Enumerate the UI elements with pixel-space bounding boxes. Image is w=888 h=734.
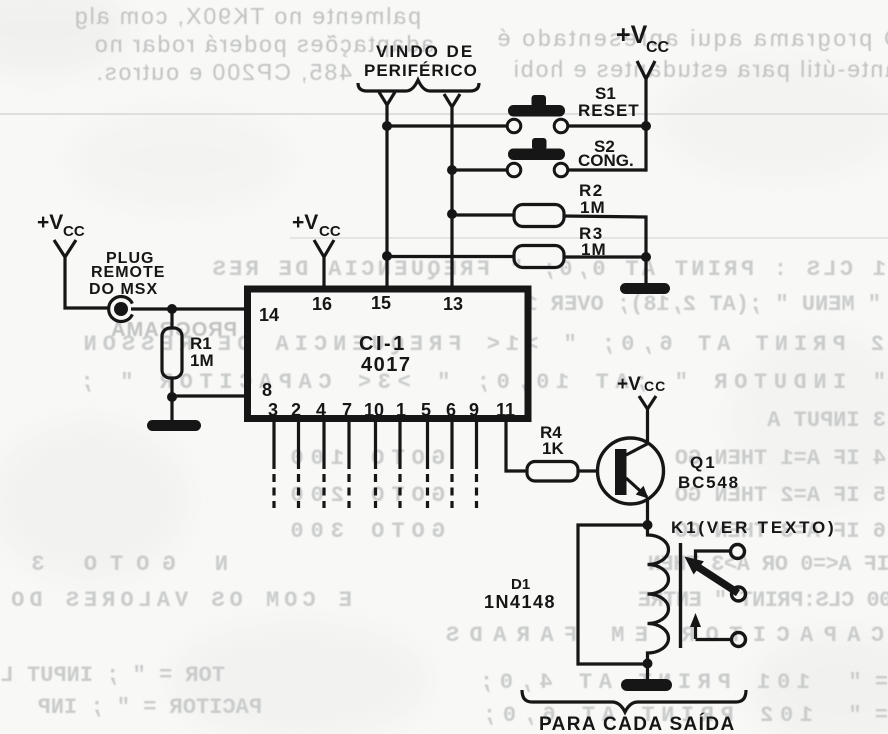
- svg-text:100 CLS:PRINT " ENTRE: 100 CLS:PRINT " ENTRE: [638, 588, 888, 613]
- svg-text:ante-útil para estudantes e ho: ante-útil para estudantes e hobi: [512, 56, 888, 82]
- svg-text:GOTO 200: GOTO 200: [283, 483, 445, 508]
- svg-text:3: 3: [268, 400, 278, 420]
- svg-text:= ": = ": [848, 703, 888, 728]
- svg-text:+V: +V: [37, 211, 63, 234]
- svg-text:2: 2: [291, 400, 301, 420]
- svg-text:7 IF A<=0 OR A>3 THEN: 7 IF A<=0 OR A>3 THEN: [648, 552, 888, 577]
- svg-text:9: 9: [469, 400, 479, 420]
- svg-text:14: 14: [259, 305, 279, 325]
- svg-text:PERIFÉRICO: PERIFÉRICO: [364, 61, 478, 80]
- svg-text:PARA CADA SAÍDA: PARA CADA SAÍDA: [539, 713, 736, 734]
- svg-text:" INDUTOR " ;AT 10,0; " >3< CA: " INDUTOR " ;AT 10,0; " >3< CAPACITOR " …: [74, 370, 886, 395]
- svg-text:E COM OS VALORES DO: E COM OS VALORES DO: [6, 588, 352, 613]
- svg-text:GOTO 300: GOTO 300: [283, 519, 445, 544]
- svg-text:15: 15: [371, 293, 391, 313]
- svg-text:= ": = ": [848, 670, 888, 695]
- svg-text:CONG.: CONG.: [578, 151, 634, 170]
- svg-text:palmente no TK90X, com alg: palmente no TK90X, com alg: [73, 3, 421, 29]
- svg-text:10: 10: [364, 400, 384, 420]
- svg-text:7: 7: [342, 400, 352, 420]
- svg-text:Q1: Q1: [690, 453, 717, 472]
- svg-text:D1: D1: [511, 576, 530, 593]
- svg-text:CC: CC: [319, 223, 341, 240]
- svg-text:6: 6: [446, 400, 456, 420]
- svg-text:1M: 1M: [580, 198, 606, 217]
- svg-text:CC: CC: [63, 223, 85, 240]
- svg-text:GOTO 100: GOTO 100: [283, 446, 445, 471]
- svg-text:8: 8: [262, 380, 272, 400]
- svg-text:CI-1: CI-1: [359, 333, 407, 355]
- svg-text:CC: CC: [644, 378, 666, 394]
- svg-text:PACITOR = " ; INP: PACITOR = " ; INP: [38, 695, 262, 720]
- svg-text:485, CP200 e outros.: 485, CP200 e outros.: [95, 59, 352, 85]
- svg-text:VINDO DE: VINDO DE: [376, 42, 474, 61]
- svg-text:1: 1: [396, 400, 406, 420]
- svg-text:DO MSX: DO MSX: [89, 281, 158, 298]
- svg-text:CC: CC: [646, 39, 670, 56]
- svg-text:4017: 4017: [361, 354, 412, 376]
- svg-text:1M: 1M: [581, 240, 607, 259]
- svg-text:1 CLS : PRINT AT 0,0; " FREQUE: 1 CLS : PRINT AT 0,0; " FREQUENCIA DE RE…: [209, 257, 886, 282]
- svg-text:RESET: RESET: [578, 101, 640, 120]
- svg-text:11: 11: [496, 400, 515, 420]
- svg-text:13: 13: [443, 294, 463, 314]
- svg-text:K1(VER TEXTO): K1(VER TEXTO): [671, 518, 837, 537]
- svg-text:O programa aqui apresentado é: O programa aqui apresentado é: [495, 25, 888, 51]
- svg-text:+V: +V: [292, 211, 318, 234]
- svg-text:+V: +V: [616, 21, 648, 49]
- svg-text:5: 5: [421, 400, 431, 420]
- svg-text:1K: 1K: [542, 439, 564, 458]
- svg-text:1N4148: 1N4148: [484, 592, 556, 612]
- svg-text:N GOTO 3: N GOTO 3: [18, 552, 228, 577]
- svg-text:4: 4: [316, 400, 326, 420]
- svg-text:REMOTE: REMOTE: [91, 264, 165, 281]
- svg-text:+V: +V: [617, 374, 641, 395]
- svg-text:BC548: BC548: [678, 473, 740, 492]
- svg-text:3 INPUT A: 3 INPUT A: [766, 408, 886, 433]
- svg-text:" MENU " ;(AT 2,18); OVER 1: " MENU " ;(AT 2,18); OVER 1: [525, 292, 881, 317]
- svg-text:16: 16: [312, 294, 332, 314]
- svg-text:1M: 1M: [190, 351, 214, 370]
- svg-text:TOR = " ; INPUT L: TOR = " ; INPUT L: [1, 663, 225, 688]
